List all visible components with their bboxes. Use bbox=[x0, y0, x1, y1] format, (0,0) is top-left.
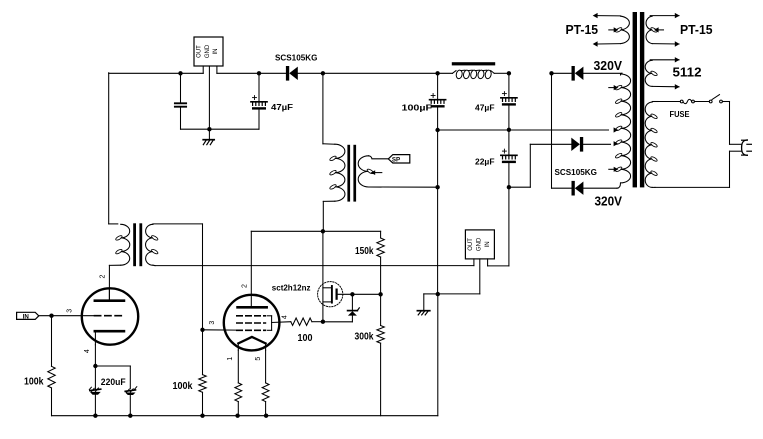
fuse F1 bbox=[680, 99, 694, 103]
wire ground bus under C1 C2 bbox=[181, 128, 260, 130]
svg-text:320V: 320V bbox=[594, 58, 623, 73]
connector IN tag bbox=[17, 312, 39, 320]
tube V1 cathode bbox=[95, 331, 124, 345]
node junction gate divider bbox=[378, 292, 382, 296]
node junction 47uF top bbox=[257, 71, 261, 75]
svg-text:OUT: OUT bbox=[197, 45, 203, 58]
U1 pin OUT lead bbox=[202, 66, 204, 73]
U2 label IN bbox=[485, 241, 491, 247]
pin label V2-1 bbox=[227, 357, 234, 361]
resistor R4 cathode bbox=[235, 350, 242, 416]
svg-text:47µF: 47µF bbox=[271, 102, 293, 112]
wire D4 to winding bottom bbox=[583, 187, 617, 189]
capacitor C4 47uF bbox=[501, 73, 517, 130]
node junction rail R5 bbox=[264, 414, 268, 418]
svg-text:SCS105KG: SCS105KG bbox=[275, 53, 317, 62]
inductor choke L1 core bar bbox=[452, 62, 495, 65]
node junction OPT drop bbox=[321, 71, 325, 75]
wire rectifier rail vertical bbox=[551, 73, 553, 188]
transformer IT secondary winding bbox=[146, 224, 159, 265]
transformer PT-15 right winding bbox=[646, 16, 679, 44]
label R7 300k bbox=[355, 331, 374, 342]
svg-text:IN: IN bbox=[213, 49, 219, 55]
U1 label GND bbox=[205, 44, 211, 58]
svg-text:4: 4 bbox=[282, 315, 289, 319]
voltage regulator U1 box bbox=[194, 37, 223, 66]
arrow PT-15 right top bbox=[675, 13, 680, 18]
svg-text:sct2h12nz: sct2h12nz bbox=[272, 282, 311, 292]
label R3 100 bbox=[298, 333, 313, 344]
resistor R5 cathode bbox=[262, 350, 269, 416]
arrow PT-15 right tap bbox=[654, 27, 664, 32]
capacitor film C1 bbox=[175, 73, 186, 129]
svg-text:GND: GND bbox=[205, 44, 211, 58]
label D1 SCS105KG bbox=[275, 53, 317, 62]
svg-text:PT-15: PT-15 bbox=[680, 22, 713, 37]
arrow tap bias into HV winding bbox=[614, 141, 619, 146]
wire V2 grid wire bbox=[203, 329, 237, 331]
transformer OPT primary winding bbox=[329, 144, 345, 201]
label 320V top bbox=[594, 58, 623, 73]
capacitor C5 22uF bbox=[501, 130, 517, 187]
transistor Q1 sct2h12nz envelope bbox=[318, 282, 343, 307]
node junction 47uF 22uF bbox=[507, 128, 511, 132]
U1 label OUT bbox=[197, 45, 203, 58]
wire OPT bottom to MOSFET drain bbox=[322, 231, 324, 321]
connector SP tag bbox=[388, 155, 410, 164]
transformer IT primary winding bbox=[109, 224, 130, 301]
diode D5 zener bbox=[323, 294, 359, 322]
svg-text:IN: IN bbox=[23, 313, 30, 320]
arrow tap into HV winding bbox=[614, 127, 619, 132]
transformer OPT core bbox=[347, 145, 356, 202]
capacitor C6 220uF left bbox=[89, 366, 100, 416]
svg-text:GND: GND bbox=[477, 237, 483, 251]
node junction rail R2 bbox=[200, 414, 204, 418]
U1 pin IN lead bbox=[216, 66, 218, 73]
svg-text:2: 2 bbox=[241, 284, 248, 288]
transformer 5112 winding bbox=[645, 60, 679, 87]
arrow PT-15 left bottom bbox=[593, 41, 598, 46]
transistor Q1 channel bar bbox=[331, 286, 333, 303]
capacitor C2 47uF bbox=[251, 73, 267, 129]
plug P1 body bbox=[742, 140, 752, 155]
U2 pin GND lead bbox=[438, 259, 480, 294]
wire primary top to fuse bbox=[658, 101, 680, 103]
diode D1 SCS105KG bbox=[217, 66, 323, 81]
label 5112 bbox=[673, 64, 702, 79]
node junction gate zener bbox=[350, 292, 354, 296]
node junction rail C6 bbox=[93, 414, 97, 418]
node junction MOSFET source bbox=[321, 320, 325, 324]
svg-text:3: 3 bbox=[67, 309, 74, 313]
transistor Q1 gate lead bbox=[337, 293, 381, 295]
pin label V2-5 bbox=[255, 357, 262, 361]
node junction plate OPT bbox=[321, 229, 325, 233]
wire V2 pin4 bbox=[272, 321, 291, 324]
svg-text:FUSE: FUSE bbox=[670, 110, 691, 119]
svg-text:5112: 5112 bbox=[673, 64, 702, 79]
diode D3 320V top bbox=[572, 66, 584, 81]
node junction 22uF bottom bbox=[507, 185, 511, 189]
label R1 100k bbox=[24, 377, 44, 388]
arrow PT heater tap 2 bbox=[609, 167, 619, 172]
svg-text:100k: 100k bbox=[24, 377, 44, 388]
tube V2 grid g1 bbox=[237, 329, 266, 331]
resistor R1 100k bbox=[48, 316, 55, 416]
wire IT secondary top to grid drop bbox=[153, 224, 203, 330]
capacitor C7 220uF right bbox=[125, 387, 137, 416]
transformer IT core bbox=[133, 223, 142, 266]
pin label V2-4 bbox=[282, 315, 289, 319]
wire V2 plate riser bbox=[250, 231, 252, 294]
svg-text:SCS105KG: SCS105KG bbox=[555, 168, 597, 177]
tube V1 grid bbox=[95, 315, 124, 317]
label C2 47µF bbox=[271, 102, 293, 112]
ground GND2 lead bbox=[424, 294, 438, 310]
wire primary bottom to plug bbox=[655, 151, 730, 187]
U2 label GND bbox=[477, 237, 483, 251]
svg-text:1: 1 bbox=[227, 357, 234, 361]
plug P1 leads bbox=[730, 144, 742, 151]
label R6 150k bbox=[355, 246, 374, 257]
node junction choke left bbox=[435, 71, 439, 75]
node junction cathode bbox=[93, 364, 97, 368]
transistor Q1 source stub bbox=[323, 301, 332, 303]
transformer PT HV winding bbox=[615, 73, 631, 188]
tube V2 envelope bbox=[224, 295, 280, 351]
label D4 SCS105KG bbox=[555, 168, 597, 177]
transformer PT-15 left winding bbox=[598, 16, 629, 44]
pin label V2-2 bbox=[241, 284, 248, 288]
tube V2 filament leads bbox=[238, 343, 265, 350]
wire IT secondary bottom to U2 OUT bbox=[153, 264, 474, 266]
label C4 47µF bbox=[475, 102, 495, 112]
resistor R3 100 bbox=[291, 318, 323, 325]
wire cathode cap bridge bbox=[95, 366, 130, 389]
node junction film-cap tap bbox=[178, 71, 182, 75]
label R2 100k bbox=[173, 381, 193, 392]
voltage regulator U2 box bbox=[465, 230, 494, 259]
wire 22uF line down to regulator U2 bbox=[508, 187, 510, 266]
label FUSE bbox=[670, 110, 691, 119]
wire switch to plug top bbox=[722, 102, 729, 145]
wire B+ bus to choke bbox=[323, 72, 438, 74]
transformer PT core bbox=[633, 12, 645, 187]
svg-text:4: 4 bbox=[84, 349, 91, 353]
node junction ground tap bbox=[207, 127, 211, 131]
resistor R6 150k bbox=[377, 231, 384, 294]
svg-text:100k: 100k bbox=[173, 381, 193, 392]
svg-text:320V: 320V bbox=[595, 194, 623, 209]
svg-text:OUT: OUT bbox=[468, 238, 474, 251]
arrow PT-15 left tap bbox=[609, 27, 619, 32]
svg-text:47µF: 47µF bbox=[475, 102, 495, 112]
label PT-15 left bbox=[566, 22, 599, 37]
svg-text:100µF: 100µF bbox=[402, 102, 433, 112]
capacitor C3 100uF bbox=[430, 73, 446, 130]
node junction grid leak bbox=[49, 314, 53, 318]
inductor choke L1 winding bbox=[438, 70, 509, 80]
label C3 100µF bbox=[402, 102, 433, 112]
pin label V2-3 bbox=[209, 321, 216, 325]
svg-text:IN: IN bbox=[485, 241, 491, 247]
arrow OPT secondary tap bbox=[371, 170, 382, 175]
wire bus to diode D3 bbox=[552, 72, 572, 74]
node junction 100uF bottom bbox=[435, 128, 439, 132]
diode D4 SCS105KG bottom bbox=[572, 181, 584, 196]
svg-text:22µF: 22µF bbox=[475, 157, 495, 167]
label 220uF bbox=[101, 377, 126, 387]
tube V2 plate bbox=[238, 295, 267, 308]
arrow 5112 bottom bbox=[675, 84, 680, 89]
svg-text:SP: SP bbox=[392, 156, 400, 163]
svg-text:PT-15: PT-15 bbox=[566, 22, 599, 37]
arrow 5112 top bbox=[675, 57, 680, 62]
wire 22uF to bias diode bbox=[509, 144, 530, 187]
wire main center vertical bbox=[437, 130, 439, 294]
svg-text:300k: 300k bbox=[355, 331, 374, 342]
svg-text:2: 2 bbox=[100, 274, 107, 278]
tube V2 grid g3 bbox=[237, 315, 266, 317]
wire OPT primary top curve bbox=[331, 144, 335, 146]
diode D2 bias bbox=[530, 137, 610, 152]
node junction choke right bbox=[507, 71, 511, 75]
wire bottom rail bbox=[52, 294, 438, 415]
wire OPT primary bottom bbox=[323, 201, 335, 231]
pin label V1-3 bbox=[67, 309, 74, 313]
tube V2 grid g2 bbox=[237, 322, 266, 324]
tube V2 filament bbox=[238, 337, 265, 344]
label 320V bottom bbox=[595, 194, 623, 209]
node junction OPT secondary return bbox=[435, 185, 439, 189]
wire V1 cathode drop bbox=[94, 345, 96, 366]
tube V2 grid bracket bbox=[267, 316, 271, 331]
transistor Q1 gate bar bbox=[336, 290, 338, 299]
U2 label OUT bbox=[468, 238, 474, 251]
arrow PT-15 left top bbox=[593, 13, 598, 18]
arrow PT heater tap 1 bbox=[609, 85, 619, 90]
ground GND1 symbol bbox=[203, 140, 214, 145]
wire OPT secondary bottom bbox=[369, 186, 438, 188]
wire rail to diode D4 bbox=[552, 187, 572, 189]
node junction pentode grid bbox=[200, 328, 204, 332]
svg-text:3: 3 bbox=[209, 321, 216, 325]
switch SW1 bbox=[709, 95, 722, 103]
wire IN to grid bbox=[39, 315, 95, 317]
U2 pin IN lead bbox=[488, 259, 509, 266]
wire HV center tap line bbox=[438, 129, 609, 131]
transformer OPT secondary winding bbox=[358, 156, 374, 187]
svg-text:5: 5 bbox=[255, 357, 262, 361]
pin label V1-2 bbox=[100, 274, 107, 278]
U2 pin OUT lead bbox=[473, 259, 475, 266]
arrow PT-15 right bottom bbox=[675, 41, 680, 46]
label sct2h12nz bbox=[272, 282, 311, 292]
transformer primary winding bbox=[645, 102, 658, 188]
tube V1 plate bbox=[95, 288, 124, 301]
wire plate node horizontal bbox=[251, 230, 380, 232]
tube V1 envelope bbox=[82, 288, 138, 344]
node junction rail R4 bbox=[235, 414, 239, 418]
label PT-15 right bbox=[680, 22, 713, 37]
U1 label IN bbox=[213, 49, 219, 55]
label C5 22µF bbox=[475, 157, 495, 167]
wire left vertical from bus to interstage transformer bbox=[108, 73, 110, 224]
pin label V1-4 bbox=[84, 349, 91, 353]
node junction rail top bbox=[549, 71, 553, 75]
wire B+ bus left segment bbox=[109, 72, 204, 74]
ground GND1 lead bbox=[208, 129, 210, 139]
svg-text:100: 100 bbox=[298, 333, 313, 344]
wire OPT secondary top to SP bbox=[369, 156, 389, 159]
wire fuse to switch bbox=[694, 101, 709, 103]
wire D3 to winding top bbox=[583, 72, 622, 74]
ground GND2 symbol bbox=[417, 311, 429, 315]
U1 pin GND lead bbox=[208, 66, 210, 129]
node junction ground2 bbox=[436, 292, 440, 296]
node junction rail C7 bbox=[128, 414, 132, 418]
wire OPT primary drop bbox=[323, 73, 335, 144]
svg-text:220uF: 220uF bbox=[101, 377, 126, 387]
svg-text:150k: 150k bbox=[355, 246, 374, 257]
transistor Q1 drain stub bbox=[323, 287, 332, 289]
resistor R2 100k bbox=[199, 330, 206, 416]
resistor R7 300k bbox=[377, 294, 384, 415]
